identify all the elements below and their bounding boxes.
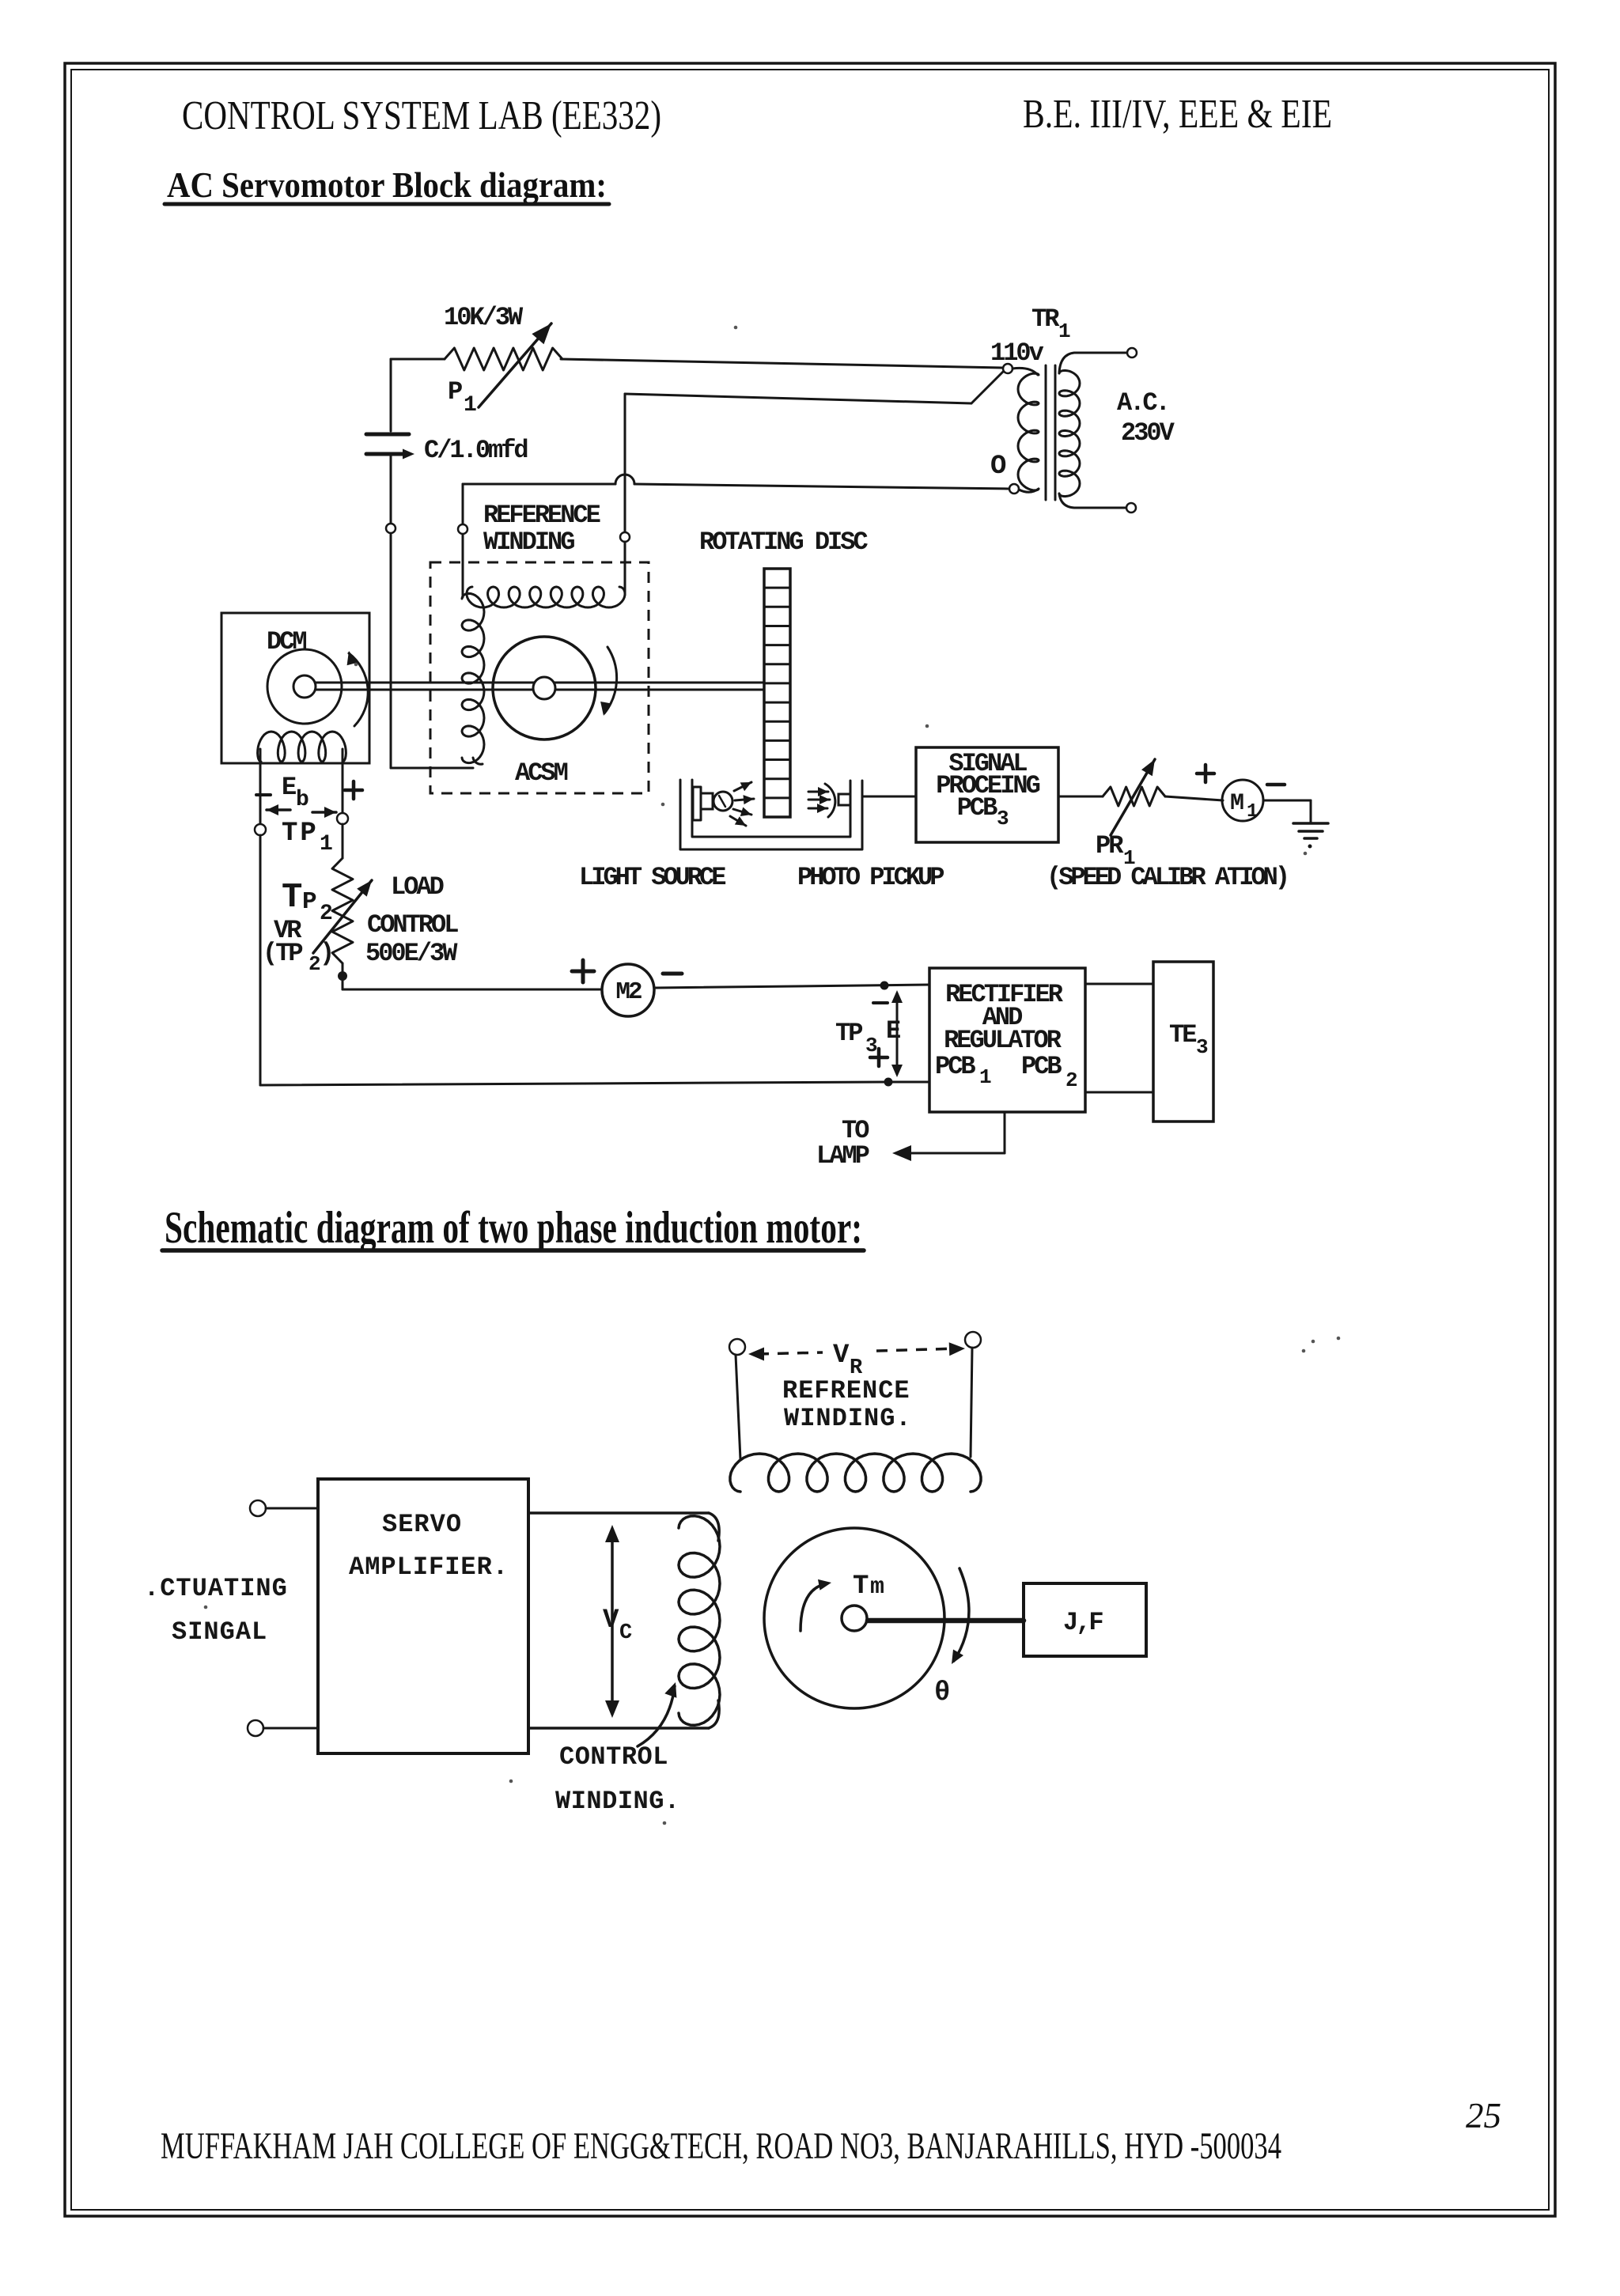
svg-text:C/1.0mfd: C/1.0mfd (424, 436, 528, 465)
svg-text:TE: TE (1169, 1020, 1196, 1050)
svg-text:E: E (886, 1016, 900, 1046)
svg-text:TP: TP (835, 1019, 862, 1048)
svg-text:TP: TP (282, 819, 319, 849)
svg-text:ACSM: ACSM (515, 758, 568, 788)
svg-text:LAMP: LAMP (816, 1141, 869, 1171)
svg-text:T: T (282, 878, 302, 917)
svg-text:): ) (320, 939, 332, 968)
svg-text:WINDING.: WINDING. (555, 1787, 680, 1816)
svg-text:b: b (296, 788, 308, 812)
svg-text:CONTROL SYSTEM LAB (EE332): CONTROL SYSTEM LAB (EE332) (182, 93, 661, 138)
svg-text:1: 1 (320, 832, 332, 857)
svg-text:2: 2 (320, 902, 332, 926)
svg-text:CONTROL: CONTROL (559, 1742, 668, 1772)
svg-text:J,F: J,F (1063, 1608, 1103, 1637)
svg-text:REFERENCE: REFERENCE (483, 501, 600, 530)
svg-text:PHOTO PICKUP: PHOTO PICKUP (797, 863, 944, 892)
svg-text:CONTROL: CONTROL (367, 910, 458, 940)
svg-text:m: m (870, 1574, 884, 1601)
svg-text:(TP: (TP (263, 939, 302, 968)
svg-text:(SPEED CALIBR ATION): (SPEED CALIBR ATION) (1047, 863, 1287, 892)
svg-text:WINDING.: WINDING. (784, 1404, 912, 1433)
svg-text:E: E (282, 773, 296, 802)
svg-text:A.C.: A.C. (1117, 388, 1168, 418)
svg-text:PCB: PCB (1021, 1052, 1062, 1081)
svg-text:O: O (990, 452, 1006, 482)
svg-text:SINGAL: SINGAL (172, 1617, 267, 1647)
svg-text:AMPLIFIER.: AMPLIFIER. (349, 1553, 509, 1582)
svg-text:25: 25 (1466, 2096, 1501, 2135)
svg-text:PCB: PCB (957, 793, 997, 823)
svg-text:LOAD: LOAD (391, 872, 444, 902)
svg-text:M: M (1230, 790, 1243, 817)
svg-text:DCM: DCM (267, 627, 306, 656)
svg-text:110v: 110v (990, 339, 1044, 368)
svg-text:WINDING: WINDING (483, 528, 574, 557)
svg-text:T: T (853, 1572, 869, 1602)
svg-text:LIGHT SOURCE: LIGHT SOURCE (579, 863, 725, 892)
svg-text:B.E. III/IV, EEE & EIE: B.E. III/IV, EEE & EIE (1023, 92, 1332, 137)
svg-text:SERVO: SERVO (382, 1510, 462, 1539)
svg-text:PCB: PCB (935, 1052, 975, 1081)
svg-text:.CTUATING: .CTUATING (144, 1574, 288, 1603)
svg-text:P: P (448, 377, 462, 407)
svg-text:MUFFAKHAM JAH COLLEGE OF ENGG&: MUFFAKHAM JAH COLLEGE OF ENGG&TECH, ROAD… (161, 2125, 1281, 2167)
svg-text:REFRENCE: REFRENCE (782, 1376, 910, 1405)
svg-text:1: 1 (464, 393, 476, 418)
svg-text:AC Servomotor Block diagram:: AC Servomotor Block diagram: (167, 165, 607, 205)
svg-text:PR: PR (1096, 831, 1124, 861)
svg-text:ROTATING DISC: ROTATING DISC (699, 528, 868, 557)
svg-text:TR: TR (1031, 304, 1060, 334)
svg-text:230V: 230V (1121, 418, 1175, 448)
svg-text:10K/3W: 10K/3W (444, 303, 524, 332)
svg-text:M2: M2 (615, 978, 642, 1006)
svg-text:Schematic diagram of two phase: Schematic diagram of two phase induction… (165, 1203, 862, 1253)
svg-text:P: P (302, 888, 316, 916)
svg-text:500E/3W: 500E/3W (365, 939, 458, 968)
svg-text:REGULATOR: REGULATOR (944, 1026, 1062, 1055)
svg-text:θ: θ (934, 1678, 949, 1708)
